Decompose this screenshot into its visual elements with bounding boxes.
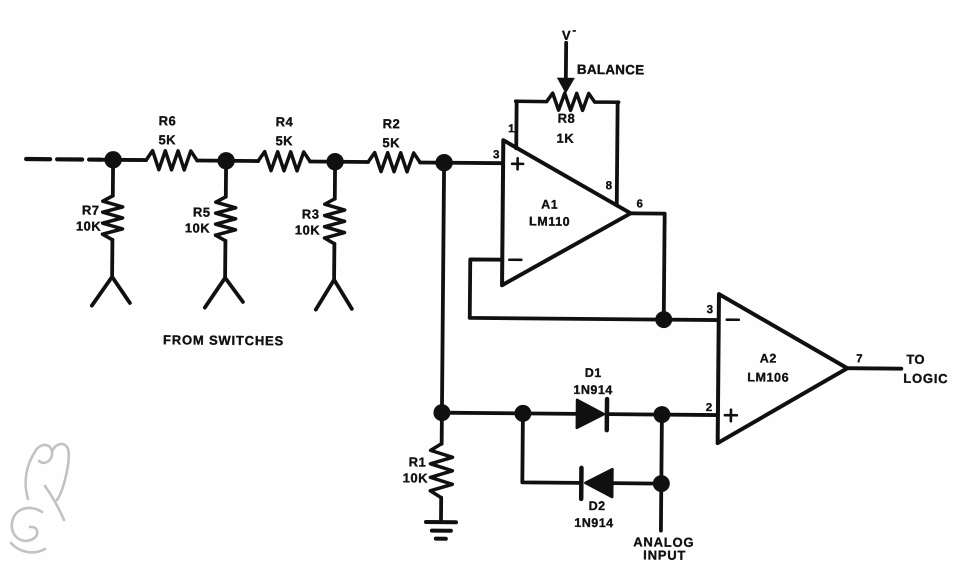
wire node4 down to R1 node xyxy=(442,163,444,413)
label R7 10K xyxy=(76,202,102,233)
svg-text:10K: 10K xyxy=(295,222,321,237)
wire dashed input lead xyxy=(26,157,100,162)
label A1 LM110 xyxy=(529,197,570,228)
svg-text:R7: R7 xyxy=(82,203,100,218)
svg-text:LM106: LM106 xyxy=(747,370,789,384)
label A2 LM106 xyxy=(747,351,789,384)
label BALANCE xyxy=(577,62,645,78)
svg-text:3: 3 xyxy=(707,304,714,316)
node R1 top junction xyxy=(433,404,450,421)
pin 6 label A1 xyxy=(636,198,643,210)
pin 7 label A2 xyxy=(856,353,863,365)
label ANALOG INPUT xyxy=(633,534,694,563)
svg-text:R5: R5 xyxy=(193,204,211,219)
potentiometer R8 body xyxy=(516,93,619,111)
svg-text:1K: 1K xyxy=(556,131,574,146)
A2 minus input symbol xyxy=(727,318,739,321)
label R5 10K xyxy=(185,204,211,235)
label R6 5K xyxy=(158,113,176,147)
handwritten page number 213 xyxy=(11,444,69,552)
svg-text:D1: D1 xyxy=(585,366,602,380)
op-amp A2 xyxy=(718,294,848,444)
node analog input junction top xyxy=(653,406,670,423)
switch connector fork R5 xyxy=(205,241,244,308)
A1 minus input symbol xyxy=(509,258,521,261)
svg-text:10K: 10K xyxy=(403,470,429,485)
svg-text:LM110: LM110 xyxy=(529,214,570,228)
wire analog input vertical xyxy=(661,415,662,531)
wire A1 feedback: minus input to output node xyxy=(470,259,720,320)
label R8 1K xyxy=(556,111,575,146)
pin 2 label A2 xyxy=(706,402,713,414)
wire A2 output xyxy=(847,366,901,370)
node D branch junction xyxy=(514,405,531,422)
diode D1 xyxy=(577,400,604,428)
svg-text:R8: R8 xyxy=(558,111,576,126)
wiper arrow from V- xyxy=(564,43,568,79)
svg-text:BALANCE: BALANCE xyxy=(577,62,645,78)
svg-text:10K: 10K xyxy=(76,218,102,233)
svg-text:5K: 5K xyxy=(158,132,176,147)
svg-text:2: 2 xyxy=(706,402,713,414)
svg-text:FROM SWITCHES: FROM SWITCHES xyxy=(163,332,284,348)
wire R1 to ground xyxy=(439,413,444,522)
resistor R4 xyxy=(258,152,310,171)
node analog input junction lower xyxy=(653,475,670,492)
label TO LOGIC xyxy=(903,352,948,386)
pin 8 label A1 xyxy=(606,180,613,192)
svg-text:7: 7 xyxy=(856,353,863,365)
svg-text:TO: TO xyxy=(906,352,925,367)
svg-text:LOGIC: LOGIC xyxy=(903,371,948,386)
svg-text:6: 6 xyxy=(636,198,643,210)
pin 3 label A2 xyxy=(707,304,714,316)
wire R7 top xyxy=(111,160,115,196)
svg-text:INPUT: INPUT xyxy=(643,547,686,562)
node A1 output junction xyxy=(655,311,672,328)
svg-text:V: V xyxy=(562,28,571,43)
svg-text:R4: R4 xyxy=(276,114,294,129)
svg-text:10K: 10K xyxy=(185,220,211,235)
svg-text:R6: R6 xyxy=(159,113,177,128)
resistor R7 xyxy=(102,196,122,240)
label R2 5K xyxy=(382,116,400,150)
svg-text:D2: D2 xyxy=(589,499,606,513)
svg-text:R3: R3 xyxy=(302,206,320,221)
node junction dot 3 xyxy=(326,153,344,171)
ground xyxy=(426,520,456,524)
resistor R6 xyxy=(146,151,197,170)
label D2 1N914 xyxy=(574,499,614,530)
wire lower diode branch xyxy=(522,413,662,483)
node junction dot 1 xyxy=(104,151,122,169)
svg-text:8: 8 xyxy=(606,180,613,192)
svg-text:5K: 5K xyxy=(275,133,293,148)
resistor R2 xyxy=(368,153,420,172)
switch connector fork R3 xyxy=(316,244,353,310)
label R3 10K xyxy=(295,206,321,237)
svg-text:1N914: 1N914 xyxy=(574,516,613,530)
diode D2 xyxy=(585,469,612,497)
svg-text:5K: 5K xyxy=(382,135,400,150)
svg-text:R1: R1 xyxy=(409,454,427,469)
svg-text:1: 1 xyxy=(508,123,515,135)
svg-text:R2: R2 xyxy=(383,116,401,131)
resistor R1 xyxy=(430,444,452,498)
node junction dot 4 xyxy=(435,154,453,172)
wire pin2 net horizontal xyxy=(442,413,718,415)
svg-text:-: - xyxy=(572,25,576,37)
label R4 5K xyxy=(275,114,293,148)
pin 1 label A1 xyxy=(508,123,515,135)
wire R5 top xyxy=(224,161,228,197)
node junction dot 2 xyxy=(217,152,235,170)
label FROM SWITCHES xyxy=(163,332,284,348)
label R1 10K xyxy=(403,454,429,485)
resistor R5 xyxy=(215,197,235,241)
label V- supply xyxy=(562,25,577,43)
wire main input rail xyxy=(98,160,503,164)
svg-text:A2: A2 xyxy=(760,351,777,365)
label D1 1N914 xyxy=(573,366,613,397)
svg-text:1N914: 1N914 xyxy=(573,383,612,397)
wire R3 top xyxy=(333,162,337,199)
wire A1 output xyxy=(630,213,665,319)
wire pin8 to potentiometer xyxy=(615,102,620,205)
svg-text:A1: A1 xyxy=(541,198,558,212)
wire pin1 to potentiometer xyxy=(514,101,518,148)
switch connector fork R7 xyxy=(92,240,131,306)
svg-text:3: 3 xyxy=(493,149,500,161)
pin 3 label A1 xyxy=(493,149,500,161)
A2 plus input symbol xyxy=(725,410,737,422)
A1 plus input symbol xyxy=(512,158,523,169)
op-amp A1 xyxy=(502,140,631,286)
resistor R3 xyxy=(324,199,344,244)
